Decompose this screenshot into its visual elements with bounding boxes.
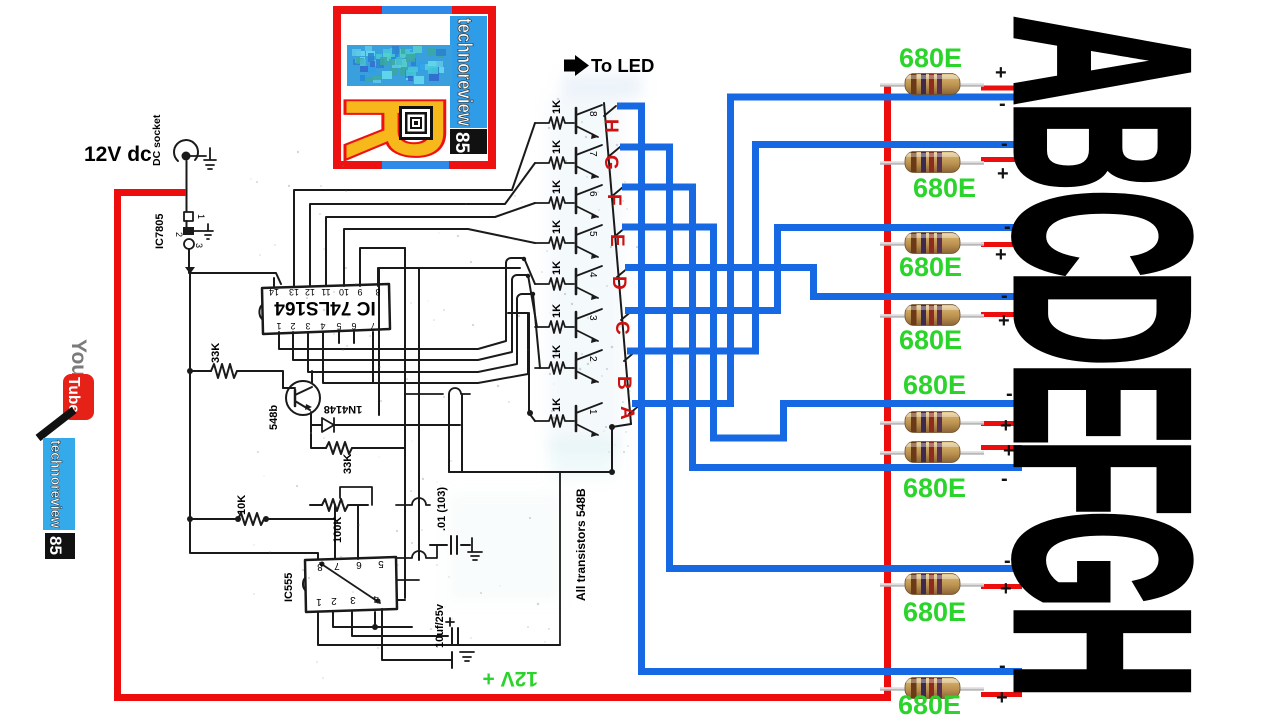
svg-text:H: H (600, 119, 621, 133)
svg-text:C: C (611, 321, 632, 335)
svg-text:12: 12 (305, 287, 315, 297)
svg-text:2: 2 (290, 321, 295, 331)
svg-text:680E: 680E (899, 325, 962, 355)
svg-text:8: 8 (317, 561, 323, 572)
svg-text:6: 6 (587, 191, 598, 197)
svg-text:G: G (600, 155, 621, 170)
svg-text:1K: 1K (551, 398, 563, 412)
svg-text:B: B (613, 376, 634, 390)
svg-text:10uf/25v: 10uf/25v (434, 603, 446, 648)
svg-text:7: 7 (370, 321, 375, 331)
svg-text:F: F (603, 194, 624, 206)
svg-text:7: 7 (587, 151, 598, 157)
svg-text:4: 4 (373, 593, 379, 604)
svg-text:DC socket: DC socket (151, 114, 163, 166)
svg-text:7: 7 (334, 560, 340, 571)
svg-text:D: D (608, 276, 629, 290)
svg-text:1K: 1K (551, 304, 563, 318)
svg-text:F: F (964, 439, 1241, 516)
svg-text:548b: 548b (268, 405, 280, 430)
svg-text:1K: 1K (551, 261, 563, 275)
svg-text:5: 5 (378, 558, 384, 569)
svg-text:8: 8 (587, 111, 598, 117)
svg-text:33K: 33K (342, 454, 354, 474)
svg-text:13: 13 (289, 287, 299, 297)
svg-text:4: 4 (320, 321, 325, 331)
svg-text:680E: 680E (899, 252, 962, 282)
svg-text:4: 4 (587, 272, 598, 278)
svg-text:100K: 100K (332, 517, 344, 543)
svg-text:10: 10 (339, 287, 349, 297)
svg-text:E: E (964, 362, 1241, 446)
svg-text:G: G (964, 510, 1241, 608)
svg-text:680E: 680E (903, 370, 966, 400)
svg-text:5: 5 (587, 231, 598, 237)
svg-text:1: 1 (196, 214, 206, 219)
svg-text:9: 9 (357, 287, 362, 297)
svg-text:14: 14 (269, 287, 279, 297)
svg-text:12V +: 12V + (483, 667, 538, 690)
svg-text:12V dc: 12V dc (84, 143, 152, 166)
svg-text:10K: 10K (236, 495, 248, 515)
svg-text:All transistors 548B: All transistors 548B (574, 488, 588, 601)
svg-text:technoreview: technoreview (47, 440, 63, 529)
svg-text:1K: 1K (551, 345, 563, 359)
svg-text:11: 11 (321, 287, 330, 297)
svg-text:1N4148: 1N4148 (324, 403, 363, 415)
svg-text:E: E (606, 234, 627, 247)
svg-text:680E: 680E (899, 43, 962, 73)
svg-text:8: 8 (375, 287, 380, 297)
svg-text:H: H (963, 603, 1240, 699)
svg-text:1: 1 (316, 596, 322, 607)
svg-text:680E: 680E (903, 597, 966, 627)
svg-text:A: A (964, 16, 1241, 105)
svg-text:2: 2 (587, 356, 598, 362)
svg-text:6: 6 (351, 321, 356, 331)
svg-text:3: 3 (350, 594, 356, 605)
svg-text:B: B (964, 101, 1242, 191)
svg-text:To LED: To LED (591, 55, 654, 76)
svg-text:C: C (964, 189, 1241, 277)
svg-text:IC 74LS164: IC 74LS164 (274, 297, 376, 318)
svg-text:.01 (103): .01 (103) (436, 487, 448, 531)
svg-text:You: You (67, 339, 90, 377)
svg-text:A: A (616, 406, 637, 420)
svg-text:R: R (314, 94, 476, 162)
svg-text:1: 1 (276, 321, 281, 331)
svg-text:33K: 33K (210, 343, 222, 363)
svg-text:680E: 680E (898, 690, 961, 720)
svg-text:2: 2 (174, 232, 184, 237)
svg-text:3: 3 (194, 243, 204, 248)
svg-text:6: 6 (356, 559, 362, 570)
svg-text:85: 85 (46, 536, 65, 555)
svg-text:1K: 1K (551, 100, 563, 114)
svg-text:3: 3 (305, 321, 310, 331)
svg-text:2: 2 (331, 595, 337, 606)
svg-text:D: D (964, 269, 1241, 366)
svg-text:IC555: IC555 (283, 573, 295, 602)
svg-text:1K: 1K (551, 180, 563, 194)
svg-text:1K: 1K (551, 140, 563, 154)
svg-text:1: 1 (587, 409, 598, 415)
svg-text:5: 5 (336, 321, 341, 331)
svg-text:680E: 680E (903, 473, 966, 503)
svg-text:IC7805: IC7805 (154, 214, 166, 249)
svg-text:Tube: Tube (65, 377, 82, 413)
